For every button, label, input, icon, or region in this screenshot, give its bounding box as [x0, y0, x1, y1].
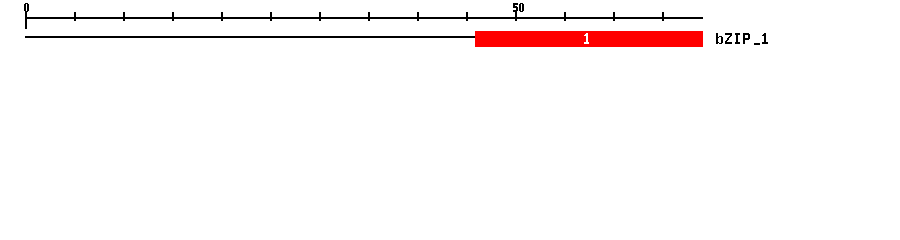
domain number 1 (white) [584, 33, 589, 44]
ruler tick 20 [221, 12, 223, 21]
ruler tick 60 [613, 12, 615, 21]
ruler tick 50 [515, 12, 517, 21]
ruler tick 35 [368, 12, 370, 21]
domain name label bZIP_1 : underscore [754, 43, 760, 45]
ruler tick 25 [270, 12, 272, 21]
ruler tick 30 [319, 12, 321, 21]
ruler tick 0 (long) [25, 12, 27, 29]
ruler tick 40 [417, 12, 419, 21]
domain name label bZIP_1 : digit 1 [762, 33, 768, 44]
ruler tick 45 [466, 12, 468, 21]
ruler tick 55 [564, 12, 566, 21]
ruler tick 10 [123, 12, 125, 21]
domain name label bZIP_1 : letter Z [725, 33, 732, 44]
ruler tick 65 [662, 12, 664, 21]
domain name label bZIP_1 : letter I [735, 33, 740, 44]
sequence backbone line [25, 36, 476, 38]
ruler line [25, 17, 703, 19]
ruler tick 15 [172, 12, 174, 21]
ruler tick 5 [74, 12, 76, 21]
domain name label bZIP_1 : letter b [716, 33, 723, 44]
ruler label 0 [24, 3, 29, 12]
domain name label bZIP_1 : letter P [743, 33, 750, 44]
domain box bZIP_1 (red) [475, 31, 703, 47]
ruler label 50 [513, 3, 524, 12]
